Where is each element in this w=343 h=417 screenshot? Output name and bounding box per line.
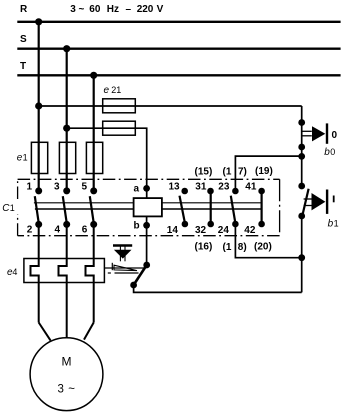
- svg-text:24: 24: [218, 225, 230, 236]
- heater element 2: [59, 224, 67, 322]
- linkage left: [34, 202, 134, 204]
- wire motor left: [39, 323, 51, 341]
- svg-text:b1: b1: [328, 219, 339, 230]
- fuse e21 upper: [103, 99, 136, 113]
- trip actuator funnel: [114, 250, 132, 259]
- svg-text:(1: (1: [223, 166, 232, 177]
- svg-text:6: 6: [82, 224, 88, 235]
- wire b1 to node: [301, 216, 303, 292]
- overload e4 box: [24, 259, 105, 283]
- trip pawl wedge: [114, 265, 137, 270]
- svg-text:0: 0: [332, 130, 338, 141]
- e4 trip link line: [104, 267, 144, 269]
- contact aux 41-42 NC: [258, 188, 265, 195]
- fuse e1-3: [86, 142, 102, 173]
- motor M: [30, 338, 103, 411]
- svg-text:2: 2: [27, 224, 33, 235]
- wire L1 drop: [38, 22, 40, 191]
- svg-text:C1: C1: [2, 203, 15, 214]
- svg-text:T: T: [20, 61, 26, 72]
- contact C1 main 5-6: [90, 187, 97, 194]
- svg-text:7): 7): [238, 166, 247, 177]
- wire coil b down: [146, 216, 148, 265]
- svg-text:3 ~60Hz–220V: 3 ~60Hz–220V: [70, 4, 163, 15]
- svg-text:23: 23: [218, 181, 230, 192]
- svg-text:R: R: [20, 4, 28, 15]
- label I: [333, 196, 335, 203]
- heater element 3: [86, 224, 94, 322]
- svg-text:3: 3: [54, 182, 60, 193]
- node L2-S: [63, 45, 70, 52]
- svg-text:5: 5: [81, 182, 87, 193]
- node e21b tap: [63, 125, 70, 132]
- svg-text:1: 1: [26, 182, 32, 193]
- trip actuator bar: [113, 244, 132, 246]
- svg-text:(16): (16): [195, 242, 213, 253]
- svg-text:(20): (20): [254, 242, 272, 253]
- bus R: [17, 21, 340, 23]
- node a: [143, 185, 150, 192]
- svg-text:M: M: [62, 355, 72, 369]
- wire e21b horizontal: [67, 128, 147, 198]
- svg-text:a: a: [134, 184, 140, 195]
- fuse e1-2: [59, 142, 75, 173]
- node 24 join: [298, 254, 305, 261]
- svg-text:b0: b0: [324, 147, 335, 158]
- bus S: [17, 48, 340, 50]
- svg-text:(1: (1: [223, 242, 232, 253]
- wire e21a horizontal: [39, 105, 302, 107]
- contact C1 main 1-2: [35, 187, 42, 194]
- svg-text:S: S: [20, 34, 27, 45]
- node b0 top: [298, 119, 305, 126]
- fuse e1-1: [31, 142, 47, 173]
- svg-text:e4: e4: [7, 267, 17, 278]
- svg-text:41: 41: [245, 181, 257, 192]
- svg-text:(19): (19): [255, 166, 273, 177]
- node L3-T: [90, 72, 97, 79]
- contact aux 31-32 NC: [207, 188, 214, 195]
- trip actuator stem: [119, 246, 121, 262]
- wire 24 down to node: [235, 224, 301, 258]
- svg-text:32: 32: [195, 225, 207, 236]
- wire motor right: [84, 323, 94, 340]
- bus T: [17, 74, 340, 76]
- heater element 1: [31, 224, 39, 322]
- node b: [143, 222, 150, 229]
- coil C1: [134, 198, 162, 216]
- node L1-R: [35, 18, 42, 25]
- node b0 bottom: [298, 144, 305, 151]
- wire motor mid: [66, 323, 68, 338]
- linkage right: [162, 202, 262, 204]
- contact aux 23-24 NO: [232, 188, 239, 195]
- wire L3 drop: [93, 75, 95, 191]
- node e21a tap: [35, 102, 42, 109]
- wire trip return: [134, 285, 302, 292]
- fuse e21 lower: [103, 121, 136, 135]
- svg-text:e21: e21: [104, 85, 122, 96]
- contactor C1 dashed enclosure: [18, 179, 280, 235]
- svg-text:e1: e1: [17, 153, 28, 164]
- e4 trip link dashed: [108, 272, 111, 274]
- trip contact e4: [143, 262, 150, 269]
- node hold tap: [298, 153, 305, 160]
- svg-text:(15): (15): [195, 167, 213, 178]
- wire L2 drop: [66, 49, 68, 191]
- pushbutton b0 plunger: [302, 130, 312, 132]
- contact aux 13-14 NO: [181, 188, 188, 195]
- svg-text:31: 31: [195, 181, 207, 192]
- svg-text:14: 14: [167, 225, 179, 236]
- svg-text:4: 4: [54, 224, 60, 235]
- svg-text:b: b: [134, 221, 140, 232]
- svg-text:13: 13: [169, 181, 181, 192]
- pushbutton b1 NO: [298, 183, 305, 190]
- wire control column: [301, 106, 303, 186]
- wire 23 up to stop/start node: [235, 156, 301, 191]
- contact C1 main 3-4: [63, 187, 70, 194]
- svg-text:42: 42: [244, 225, 256, 236]
- trip pawl tick: [111, 263, 113, 270]
- svg-text:8): 8): [238, 242, 247, 253]
